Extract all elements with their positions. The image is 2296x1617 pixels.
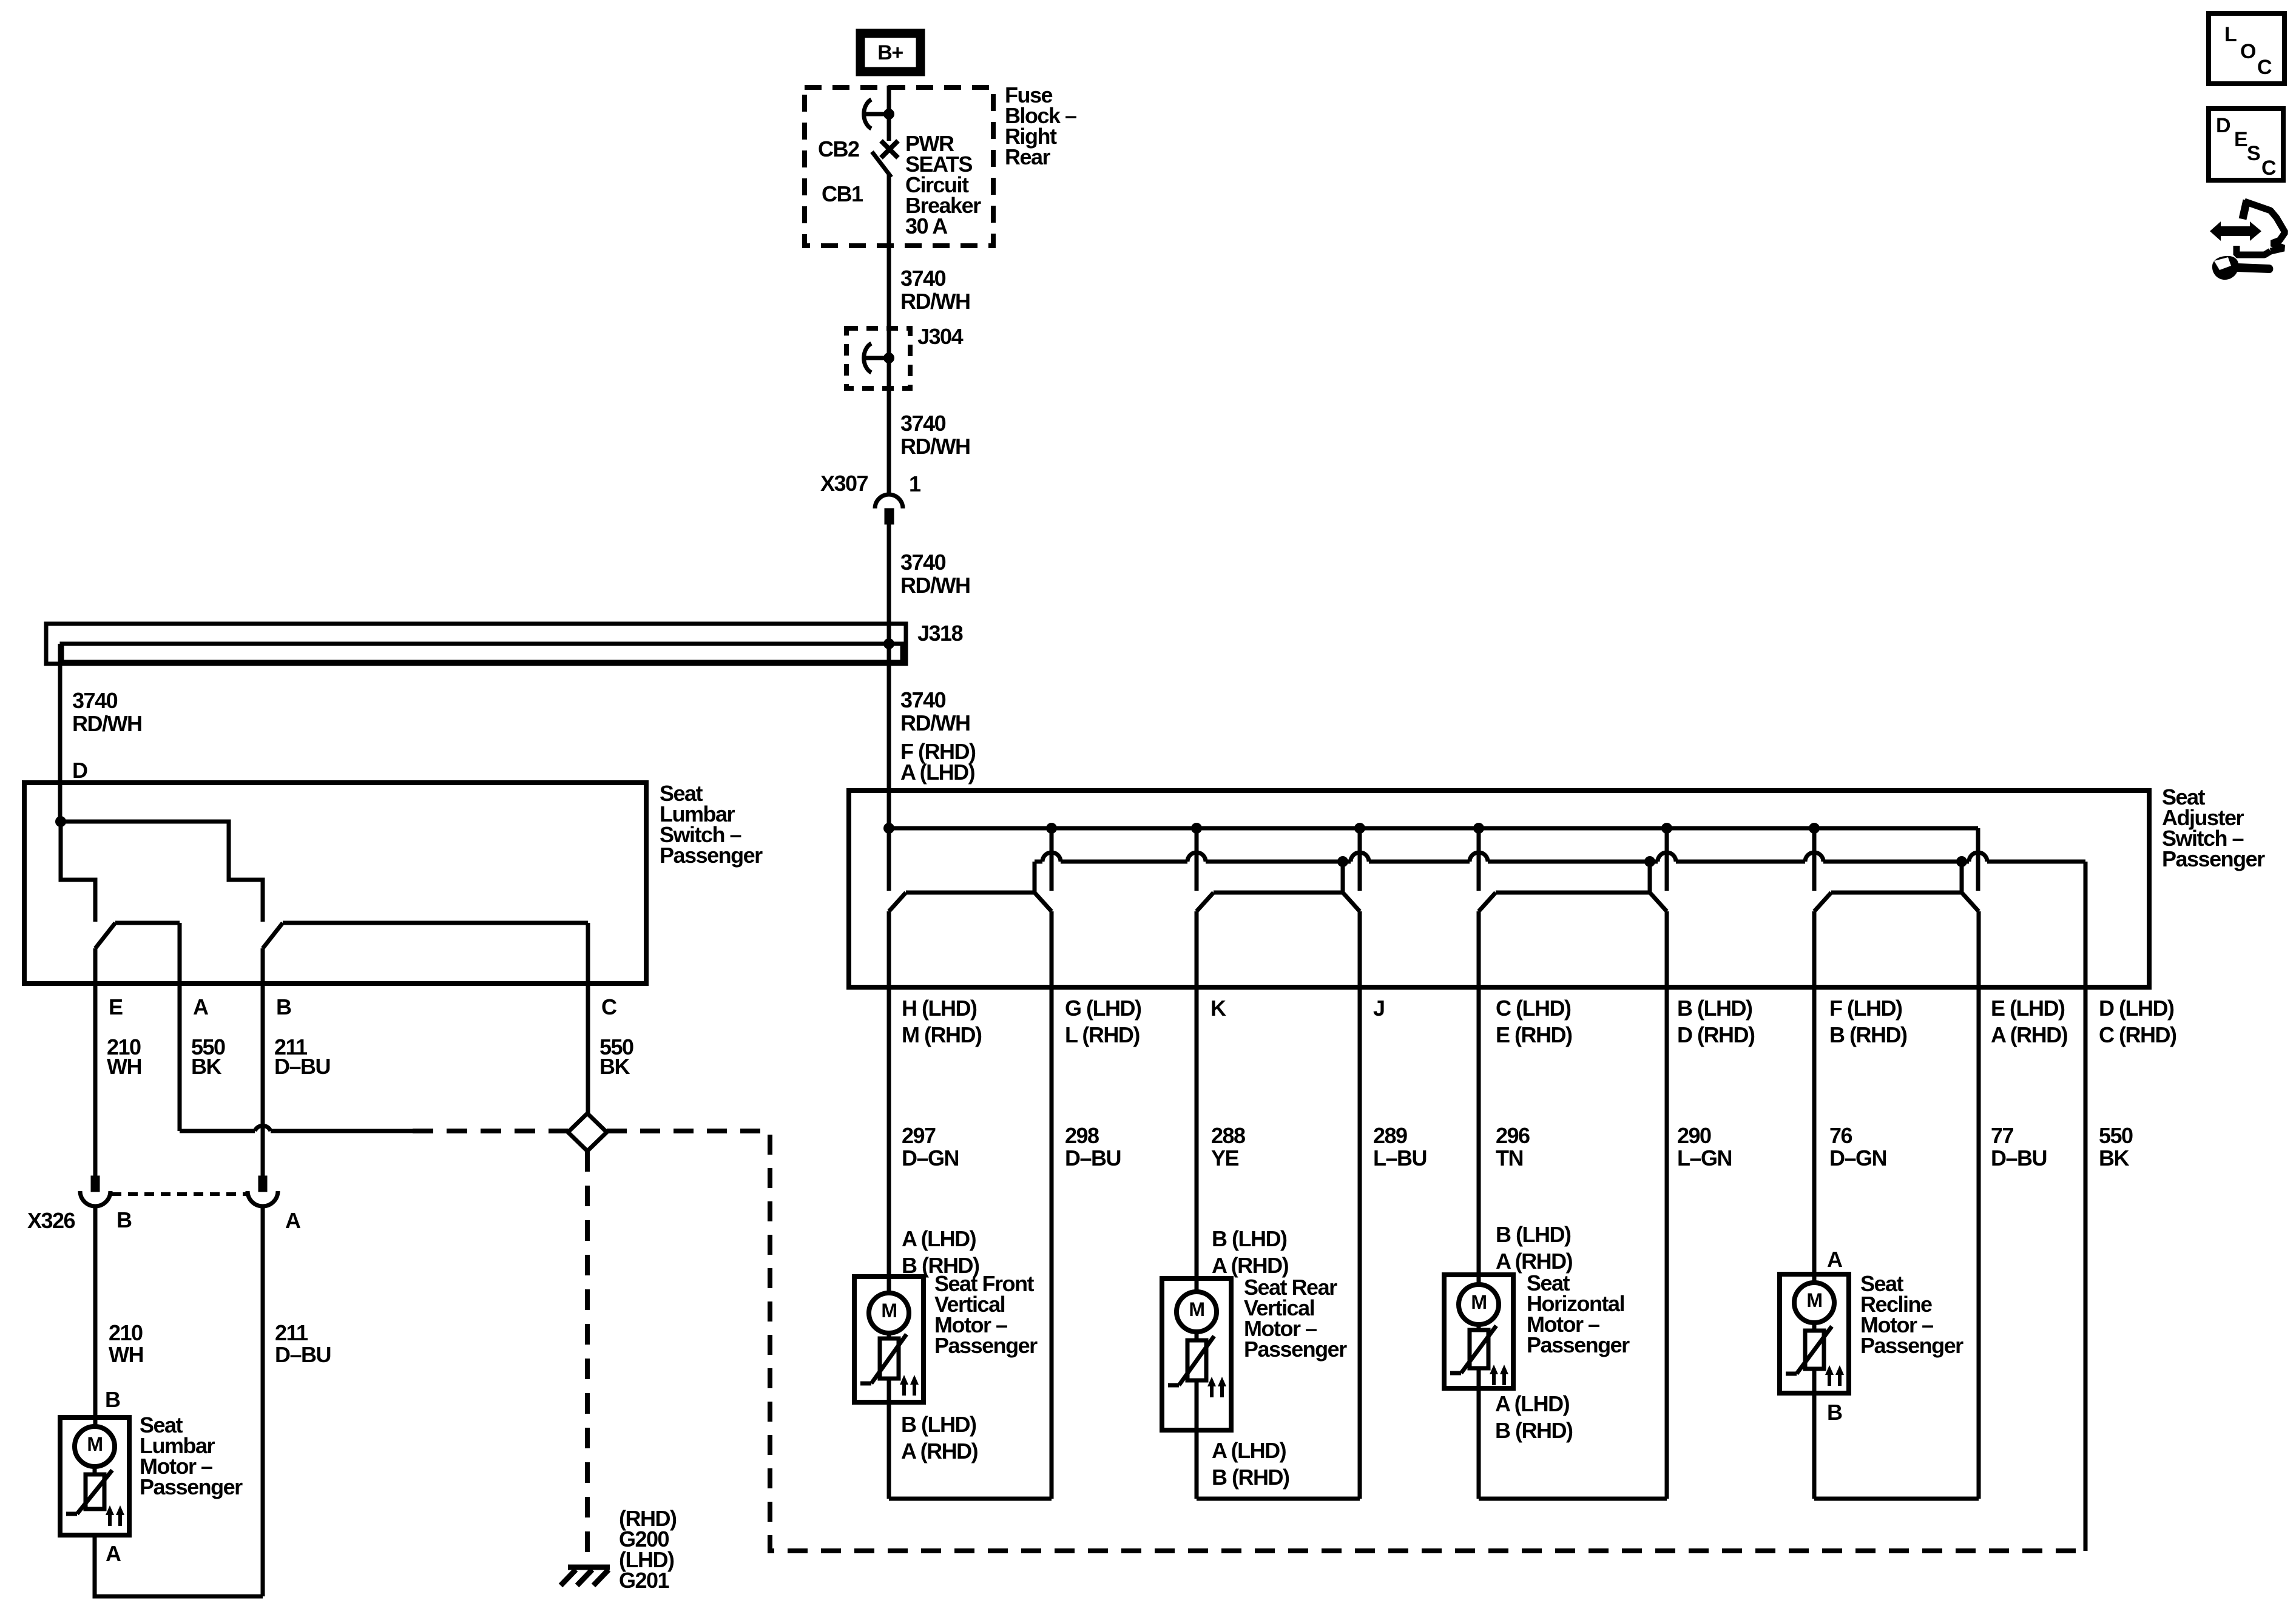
svg-text:B+: B+	[877, 41, 903, 64]
wire from splice to breaker contact	[887, 114, 891, 141]
svg-text:RD/WH: RD/WH	[900, 434, 970, 459]
pin label B (lumbar motor)	[105, 1387, 120, 1412]
wire 298 D-BU (pin G/L)	[1050, 911, 1054, 1499]
junction dot on J318	[883, 638, 894, 649]
adjuster ground bus corner to pin D/C	[2084, 862, 2088, 987]
wire label 298 D–BU	[1065, 1123, 1121, 1170]
svg-text:B: B	[276, 994, 291, 1019]
svg-text:BK: BK	[599, 1054, 630, 1079]
junction block J318 outer bar	[46, 624, 906, 664]
svg-text:F (LHD): F (LHD)	[1829, 996, 1902, 1021]
svg-text:BK: BK	[191, 1054, 221, 1079]
wire label 550 BK (pin A)	[191, 1035, 225, 1079]
svg-text:D–BU: D–BU	[274, 1054, 330, 1079]
seat lumbar motor label	[140, 1413, 243, 1499]
svg-text:BK: BK	[2099, 1146, 2129, 1170]
adjuster pin label G	[1065, 996, 1141, 1047]
wire motor2 to loop	[1195, 1430, 1199, 1499]
svg-text:B: B	[1827, 1400, 1842, 1425]
svg-text:B (LHD): B (LHD)	[1212, 1226, 1287, 1251]
svg-text:G (LHD): G (LHD)	[1065, 996, 1141, 1021]
svg-text:S: S	[2247, 142, 2260, 165]
wire label 3740 RD/WH (left)	[72, 688, 141, 736]
seat rear vertical motor	[1162, 1278, 1231, 1430]
svg-text:X307: X307	[820, 471, 868, 496]
svg-text:CB2: CB2	[818, 137, 859, 161]
svg-text:TN: TN	[1496, 1146, 1523, 1170]
svg-text:J: J	[1373, 996, 1385, 1021]
wire label 211 D-BU (lower)	[275, 1320, 331, 1367]
svg-text:Passenger: Passenger	[660, 843, 763, 868]
lumbar rest rail E to pin A	[115, 921, 180, 925]
svg-text:C (LHD): C (LHD)	[1496, 996, 1571, 1021]
svg-text:B: B	[116, 1207, 132, 1232]
wire label 3740 RD/WH (1)	[900, 266, 970, 314]
svg-text:E: E	[109, 994, 123, 1019]
pin label below motor 1	[901, 1412, 978, 1463]
svg-text:Rear: Rear	[1005, 144, 1051, 169]
svg-text:A (LHD): A (LHD)	[902, 1226, 976, 1251]
adjuster pin label D	[2099, 996, 2176, 1047]
adjuster pin label F	[1829, 996, 1907, 1047]
svg-text:A: A	[285, 1208, 301, 1233]
svg-text:30 A: 30 A	[905, 214, 948, 238]
svg-text:M: M	[1471, 1291, 1486, 1313]
svg-text:1: 1	[909, 471, 921, 496]
wire label 288 YE	[1211, 1123, 1245, 1170]
DESC reference box	[2209, 109, 2283, 180]
fuse block dashed outline (Fuse Block - Right Rear)	[805, 87, 993, 246]
svg-text:O: O	[2240, 40, 2256, 63]
wire label 3740 RD/WH (2)	[900, 411, 970, 459]
motor loop bottom (front vertical)	[889, 1497, 1052, 1501]
connector X307 female half	[875, 495, 903, 508]
svg-text:YE: YE	[1211, 1146, 1239, 1170]
svg-text:A (LHD): A (LHD)	[1212, 1438, 1286, 1463]
wire label 550 BK (pin C)	[599, 1035, 633, 1079]
wire 210 WH pin E to X326	[93, 948, 98, 1176]
label J318	[917, 621, 963, 646]
seat horizontal motor label	[1527, 1271, 1630, 1357]
wire 211 D-BU X326 down	[261, 1207, 265, 1596]
wire label 77 D–BU	[1991, 1123, 2047, 1170]
pin label D	[72, 758, 87, 783]
svg-text:76: 76	[1829, 1123, 1852, 1148]
label X326	[27, 1208, 75, 1233]
label CB1	[822, 181, 863, 206]
wire 211 D-BU pin B to X326	[261, 948, 265, 1176]
svg-text:289: 289	[1373, 1123, 1407, 1148]
wire 77 D-BU (pin E/A)	[1977, 911, 1981, 1499]
lumbar feed wire to contact E	[61, 822, 95, 922]
svg-text:M: M	[1189, 1298, 1204, 1320]
svg-text:A: A	[193, 994, 209, 1019]
svg-text:A (LHD): A (LHD)	[900, 760, 975, 785]
svg-text:RD/WH: RD/WH	[900, 573, 970, 598]
svg-text:Passenger: Passenger	[1244, 1337, 1347, 1362]
svg-text:288: 288	[1211, 1123, 1245, 1148]
wire 3740 RD/WH from breaker to J304	[887, 175, 891, 358]
pin label E	[109, 994, 123, 1019]
seat horizontal motor	[1444, 1275, 1513, 1388]
svg-text:290: 290	[1677, 1123, 1711, 1148]
wire label 3740 RD/WH (4)	[900, 687, 970, 735]
svg-text:C: C	[2261, 157, 2276, 180]
splice J304 clip symbol	[864, 343, 894, 373]
adjuster pin label K	[1210, 996, 1226, 1021]
svg-text:C: C	[601, 994, 617, 1019]
svg-text:D–GN: D–GN	[1829, 1146, 1886, 1170]
seat lumbar switch label	[660, 781, 763, 868]
wire 3740 RD/WH from J304 to X307	[887, 358, 891, 493]
adjuster ground bus	[1035, 852, 2085, 862]
svg-text:D: D	[72, 758, 87, 783]
svg-text:296: 296	[1496, 1123, 1530, 1148]
seat front vertical motor label	[934, 1271, 1038, 1358]
circuit breaker CB1 blade	[872, 152, 891, 177]
wire motor4 to loop	[1812, 1393, 1817, 1499]
wire label 211 D-BU (upper)	[274, 1035, 330, 1079]
wire label 210 WH (upper)	[107, 1035, 141, 1079]
adjuster B+ rail junction dots	[883, 823, 1820, 834]
svg-text:B (RHD): B (RHD)	[1495, 1418, 1573, 1443]
wire 288 YE (pin K) to motor	[1195, 911, 1199, 1430]
svg-text:M (RHD): M (RHD)	[902, 1022, 982, 1047]
adjuster ground bus junction dots	[1337, 856, 1967, 867]
svg-text:A (RHD): A (RHD)	[1991, 1022, 2068, 1047]
svg-text:D–BU: D–BU	[1065, 1146, 1121, 1170]
svg-text:D (RHD): D (RHD)	[1677, 1022, 1755, 1047]
svg-text:A: A	[1827, 1247, 1843, 1272]
wire label 297 D–GN	[902, 1123, 959, 1170]
svg-text:E: E	[2234, 128, 2247, 151]
power feed B+ symbol	[860, 33, 920, 72]
pin label F (RHD) A (LHD)	[900, 739, 976, 785]
adjuster switch blades	[889, 893, 1979, 911]
connector X326 pin A male	[258, 1176, 267, 1192]
pin label above motor 2	[1212, 1226, 1289, 1278]
label X326 pin A	[285, 1208, 301, 1233]
svg-text:3740: 3740	[72, 688, 118, 713]
wire label 289 L–BU	[1373, 1123, 1427, 1170]
pin label above motor 1	[902, 1226, 979, 1278]
wire 550 BK pin C down to splice	[586, 923, 590, 1113]
lumbar rest rail B to pin C	[283, 921, 588, 925]
seat front vertical motor	[854, 1277, 923, 1402]
svg-text:B (LHD): B (LHD)	[901, 1412, 976, 1437]
pin label below motor 4	[1827, 1400, 1842, 1425]
wire motor1 to loop	[887, 1402, 891, 1499]
svg-text:A (RHD): A (RHD)	[901, 1439, 978, 1463]
svg-text:J318: J318	[917, 621, 963, 646]
svg-text:C: C	[2257, 56, 2272, 79]
connector-view icon wrench	[2212, 256, 2273, 280]
lumbar feed junction dot	[55, 816, 66, 827]
ground wire elbow and hop over 211 wire	[180, 1126, 413, 1131]
wire label 296 TN	[1496, 1123, 1530, 1170]
svg-text:E (LHD): E (LHD)	[1991, 996, 2065, 1021]
connector-view icon arrow	[2210, 221, 2261, 241]
fuse block label	[1005, 83, 1076, 169]
seat lumbar motor (M + thermistor)	[60, 1417, 129, 1535]
label X307 pin 1	[909, 471, 921, 496]
label CB2	[818, 137, 859, 161]
ground label	[619, 1506, 677, 1593]
svg-text:L–BU: L–BU	[1373, 1146, 1427, 1170]
svg-text:RD/WH: RD/WH	[900, 289, 970, 314]
svg-text:Passenger: Passenger	[934, 1333, 1038, 1358]
pin label above motor 3	[1496, 1222, 1573, 1274]
splice clip symbol inside fuse block	[864, 100, 894, 129]
wire 3740 RD/WH from X307 to J318	[887, 524, 891, 667]
svg-text:L: L	[2224, 23, 2237, 46]
ground symbol G200/G201	[561, 1567, 610, 1585]
svg-text:D–GN: D–GN	[902, 1146, 959, 1170]
adjuster pin label J	[1373, 996, 1385, 1021]
adjuster B+ rail	[889, 826, 1978, 831]
adjuster pin label C	[1496, 996, 1572, 1047]
svg-text:298: 298	[1065, 1123, 1099, 1148]
ground wire dashed to splice	[413, 1129, 568, 1133]
pin label above motor 4	[1827, 1247, 1843, 1272]
svg-text:B (RHD): B (RHD)	[1829, 1022, 1907, 1047]
svg-text:297: 297	[902, 1123, 936, 1148]
pin label below motor 3	[1495, 1391, 1573, 1443]
svg-text:L–GN: L–GN	[1677, 1146, 1732, 1170]
wire 289 L-BU (pin J)	[1358, 911, 1362, 1499]
pin label A	[193, 994, 209, 1019]
seat rear vertical motor label	[1244, 1275, 1347, 1362]
wire 296 TN (pin C/E) to motor	[1477, 911, 1481, 1420]
connector X326 dashed link	[112, 1192, 246, 1196]
adjuster ground bus stubs	[1035, 862, 1962, 893]
adjuster rest rails	[906, 891, 1962, 895]
wire 3740 RD/WH left branch from J318	[58, 644, 62, 824]
connector X326 pin B female	[80, 1191, 110, 1206]
wire 76 D-GN (pin F/B) to motor	[1812, 911, 1817, 1425]
wire 297 D-GN (pin H/M) to motor	[887, 911, 891, 1428]
svg-text:B (RHD): B (RHD)	[1212, 1465, 1289, 1490]
motor loop bottom (horizontal)	[1479, 1497, 1667, 1501]
svg-text:CB1: CB1	[822, 181, 863, 206]
junction block J318 inner bar	[62, 644, 902, 662]
svg-text:3740: 3740	[900, 411, 946, 436]
svg-text:X326: X326	[27, 1208, 75, 1233]
svg-text:C (RHD): C (RHD)	[2099, 1022, 2176, 1047]
svg-text:Passenger: Passenger	[140, 1474, 243, 1499]
motor loop bottom (recline)	[1814, 1497, 1979, 1501]
breaker description	[905, 131, 981, 238]
wire 290 L-GN (pin B/D)	[1665, 911, 1669, 1499]
seat recline motor label	[1860, 1271, 1963, 1358]
circuit breaker CB1 contact X	[881, 141, 898, 158]
svg-text:210: 210	[109, 1320, 143, 1345]
svg-text:M: M	[881, 1300, 896, 1322]
svg-text:A (RHD): A (RHD)	[1212, 1253, 1289, 1278]
lumbar feed wire to contact B	[61, 822, 263, 922]
svg-text:WH: WH	[107, 1054, 141, 1079]
splice diamond symbol	[568, 1113, 607, 1151]
adjuster pin label H	[902, 996, 982, 1047]
svg-text:3740: 3740	[900, 687, 946, 712]
svg-text:3740: 3740	[900, 266, 946, 291]
wire motor3 to loop	[1477, 1388, 1481, 1499]
connector X326 pin A female	[248, 1191, 278, 1206]
adjuster feed stubs	[889, 828, 1814, 891]
svg-text:Passenger: Passenger	[1860, 1333, 1963, 1358]
svg-text:D–BU: D–BU	[275, 1342, 331, 1367]
adjuster pin label B	[1677, 996, 1755, 1047]
svg-text:L (RHD): L (RHD)	[1065, 1022, 1140, 1047]
svg-text:D: D	[2216, 114, 2230, 137]
connector X307 male pin	[885, 508, 894, 524]
svg-text:3740: 3740	[900, 550, 946, 575]
svg-text:211: 211	[275, 1320, 308, 1345]
svg-text:G201: G201	[619, 1568, 670, 1593]
dashed wire from splice to ground	[585, 1151, 590, 1564]
svg-text:RD/WH: RD/WH	[72, 711, 141, 736]
svg-text:RD/WH: RD/WH	[900, 711, 970, 735]
svg-text:E (RHD): E (RHD)	[1496, 1022, 1572, 1047]
label J304	[917, 324, 964, 349]
dashed ground wire from splice to 550 BK (right/down/bottom run)	[607, 1131, 2086, 1551]
svg-text:M: M	[1806, 1289, 1822, 1311]
motor loop bottom (rear vertical)	[1197, 1497, 1360, 1501]
label X307	[820, 471, 868, 496]
wire label 210 WH (lower)	[109, 1320, 143, 1367]
connector-view icon terminal outline	[2237, 200, 2285, 255]
seat adjuster switch label	[2162, 785, 2265, 871]
wire through J318 down to seat adjuster switch	[887, 664, 891, 830]
wire 210 WH X326 to lumbar motor	[93, 1207, 98, 1428]
svg-text:550: 550	[2099, 1123, 2133, 1148]
svg-text:M: M	[87, 1433, 102, 1455]
svg-text:A: A	[106, 1541, 121, 1566]
label X326 pin B	[116, 1207, 132, 1232]
wire from B+ into fuse block	[887, 86, 891, 113]
pin label below motor 2	[1212, 1438, 1289, 1490]
connector X326 pin B male	[91, 1176, 100, 1192]
pin label A (lumbar motor)	[106, 1541, 121, 1566]
pin label C	[601, 994, 617, 1019]
seat lumbar switch box	[24, 783, 646, 984]
lumbar switch blade B	[263, 923, 283, 948]
svg-text:D–BU: D–BU	[1991, 1146, 2047, 1170]
wire label 3740 RD/WH (3)	[900, 550, 970, 598]
svg-text:A (LHD): A (LHD)	[1495, 1391, 1570, 1416]
svg-text:B: B	[105, 1387, 120, 1412]
wire label 290 L–GN	[1677, 1123, 1732, 1170]
svg-text:Passenger: Passenger	[2162, 846, 2265, 871]
lumbar switch blade E	[95, 923, 115, 948]
wire lumbar motor loop bottom	[95, 1535, 263, 1596]
svg-text:WH: WH	[109, 1342, 143, 1367]
wire label 550 BK	[2099, 1123, 2133, 1170]
svg-text:J304: J304	[917, 324, 964, 349]
svg-text:77: 77	[1991, 1123, 2014, 1148]
pin label B	[276, 994, 291, 1019]
seat adjuster switch box	[849, 791, 2149, 987]
seat recline motor	[1780, 1274, 1849, 1393]
adjuster feed E/A corner	[1976, 828, 1980, 891]
svg-text:K: K	[1210, 996, 1226, 1021]
LOC reference box	[2209, 13, 2284, 84]
wire label 76 D–GN	[1829, 1123, 1886, 1170]
svg-text:Passenger: Passenger	[1527, 1332, 1630, 1357]
wire 550 BK (pin D/C) to dashed ground run	[2084, 987, 2088, 1551]
svg-text:B (RHD): B (RHD)	[902, 1253, 979, 1278]
adjuster pin label E	[1991, 996, 2068, 1047]
svg-text:B (LHD): B (LHD)	[1496, 1222, 1571, 1247]
splice J304 dashed box	[846, 328, 910, 388]
svg-text:H (LHD): H (LHD)	[902, 996, 977, 1021]
svg-text:D (LHD): D (LHD)	[2099, 996, 2174, 1021]
wire 550 BK pin A down	[178, 923, 182, 1131]
svg-text:B (LHD): B (LHD)	[1677, 996, 1752, 1021]
svg-text:A (RHD): A (RHD)	[1496, 1249, 1573, 1274]
